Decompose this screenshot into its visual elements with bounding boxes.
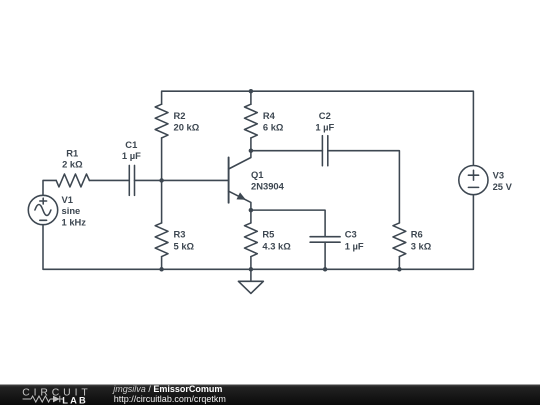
wire emitter node to C3 bbox=[251, 210, 325, 237]
node ground junction bbox=[249, 267, 254, 272]
wire R3 bottom bbox=[161, 257, 163, 270]
wire R4 bottom to collector node bbox=[250, 138, 252, 151]
capacitor C3 bbox=[310, 237, 340, 243]
transistor Q1 bbox=[229, 151, 251, 210]
wire R5 bottom bbox=[250, 257, 252, 270]
resistor R5 bbox=[245, 223, 258, 257]
node R6 bottom junction bbox=[397, 267, 402, 272]
svg-text:3 kΩ: 3 kΩ bbox=[411, 240, 432, 251]
voltage source V3 bbox=[459, 166, 488, 195]
wire emitter node to R5 bbox=[250, 210, 252, 223]
wire R1 to C1 bbox=[89, 179, 129, 181]
wire R4 top lead bbox=[250, 91, 252, 104]
svg-text:R3: R3 bbox=[174, 229, 186, 240]
svg-text:1 µF: 1 µF bbox=[345, 240, 364, 251]
voltage source V1 bbox=[28, 195, 57, 224]
svg-text:2N3904: 2N3904 bbox=[251, 181, 285, 192]
resistor R4 bbox=[245, 104, 258, 138]
svg-text:25 V: 25 V bbox=[493, 181, 513, 192]
svg-text:1 µF: 1 µF bbox=[122, 150, 141, 161]
wire C1 to Q1 base bbox=[135, 179, 229, 181]
node emitter junction bbox=[249, 208, 254, 213]
resistor R6 bbox=[393, 223, 406, 257]
svg-text:jmgsilva / EmissorComum: jmgsilva / EmissorComum bbox=[112, 384, 222, 394]
footer bar bbox=[0, 384, 540, 405]
wire C2 to R6 bbox=[328, 151, 400, 223]
node collector C2 junction bbox=[249, 148, 254, 153]
svg-text:V3: V3 bbox=[493, 170, 504, 181]
resistor R3 bbox=[155, 223, 168, 257]
svg-text:1 µF: 1 µF bbox=[315, 121, 334, 132]
svg-text:http://circuitlab.com/crqetkm: http://circuitlab.com/crqetkm bbox=[114, 394, 226, 404]
node C3 bottom junction bbox=[323, 267, 328, 272]
resistor R2 bbox=[155, 104, 168, 138]
svg-text:R6: R6 bbox=[411, 229, 423, 240]
resistor R1 bbox=[56, 174, 89, 187]
capacitor C2 bbox=[322, 136, 327, 166]
ground bbox=[238, 269, 263, 293]
wire C3 bottom bbox=[324, 242, 326, 269]
wire top rail bbox=[162, 91, 474, 165]
svg-text:4.3 kΩ: 4.3 kΩ bbox=[262, 240, 291, 251]
svg-text:20 kΩ: 20 kΩ bbox=[174, 121, 200, 132]
svg-text:V1: V1 bbox=[62, 194, 73, 205]
svg-text:LAB: LAB bbox=[62, 395, 88, 405]
node R3 bottom junction bbox=[159, 267, 164, 272]
svg-text:R2: R2 bbox=[174, 110, 186, 121]
wire collector node to C2 bbox=[251, 150, 323, 152]
wire R6 bottom bbox=[398, 257, 400, 270]
svg-text:5 kΩ: 5 kΩ bbox=[174, 240, 195, 251]
svg-text:6 kΩ: 6 kΩ bbox=[263, 121, 284, 132]
svg-text:C3: C3 bbox=[345, 229, 357, 240]
CircuitLab logo bbox=[22, 387, 91, 405]
wire bottom rail bbox=[43, 195, 473, 270]
svg-text:C1: C1 bbox=[125, 139, 137, 150]
svg-text:R5: R5 bbox=[262, 229, 274, 240]
svg-text:2 kΩ: 2 kΩ bbox=[62, 158, 83, 169]
capacitor C1 bbox=[129, 165, 134, 195]
svg-text:C2: C2 bbox=[319, 110, 331, 121]
wire V1 to R1 bbox=[43, 180, 56, 195]
svg-text:sine: sine bbox=[62, 205, 81, 216]
svg-text:R4: R4 bbox=[263, 110, 276, 121]
wire R2 bottom to R3 top bbox=[161, 138, 163, 223]
node C1-R2-R3-base junction bbox=[159, 178, 164, 183]
svg-text:1 kHz: 1 kHz bbox=[62, 216, 87, 227]
svg-text:R1: R1 bbox=[66, 148, 78, 159]
node top rail R4 junction bbox=[249, 89, 254, 94]
svg-text:Q1: Q1 bbox=[251, 169, 264, 180]
